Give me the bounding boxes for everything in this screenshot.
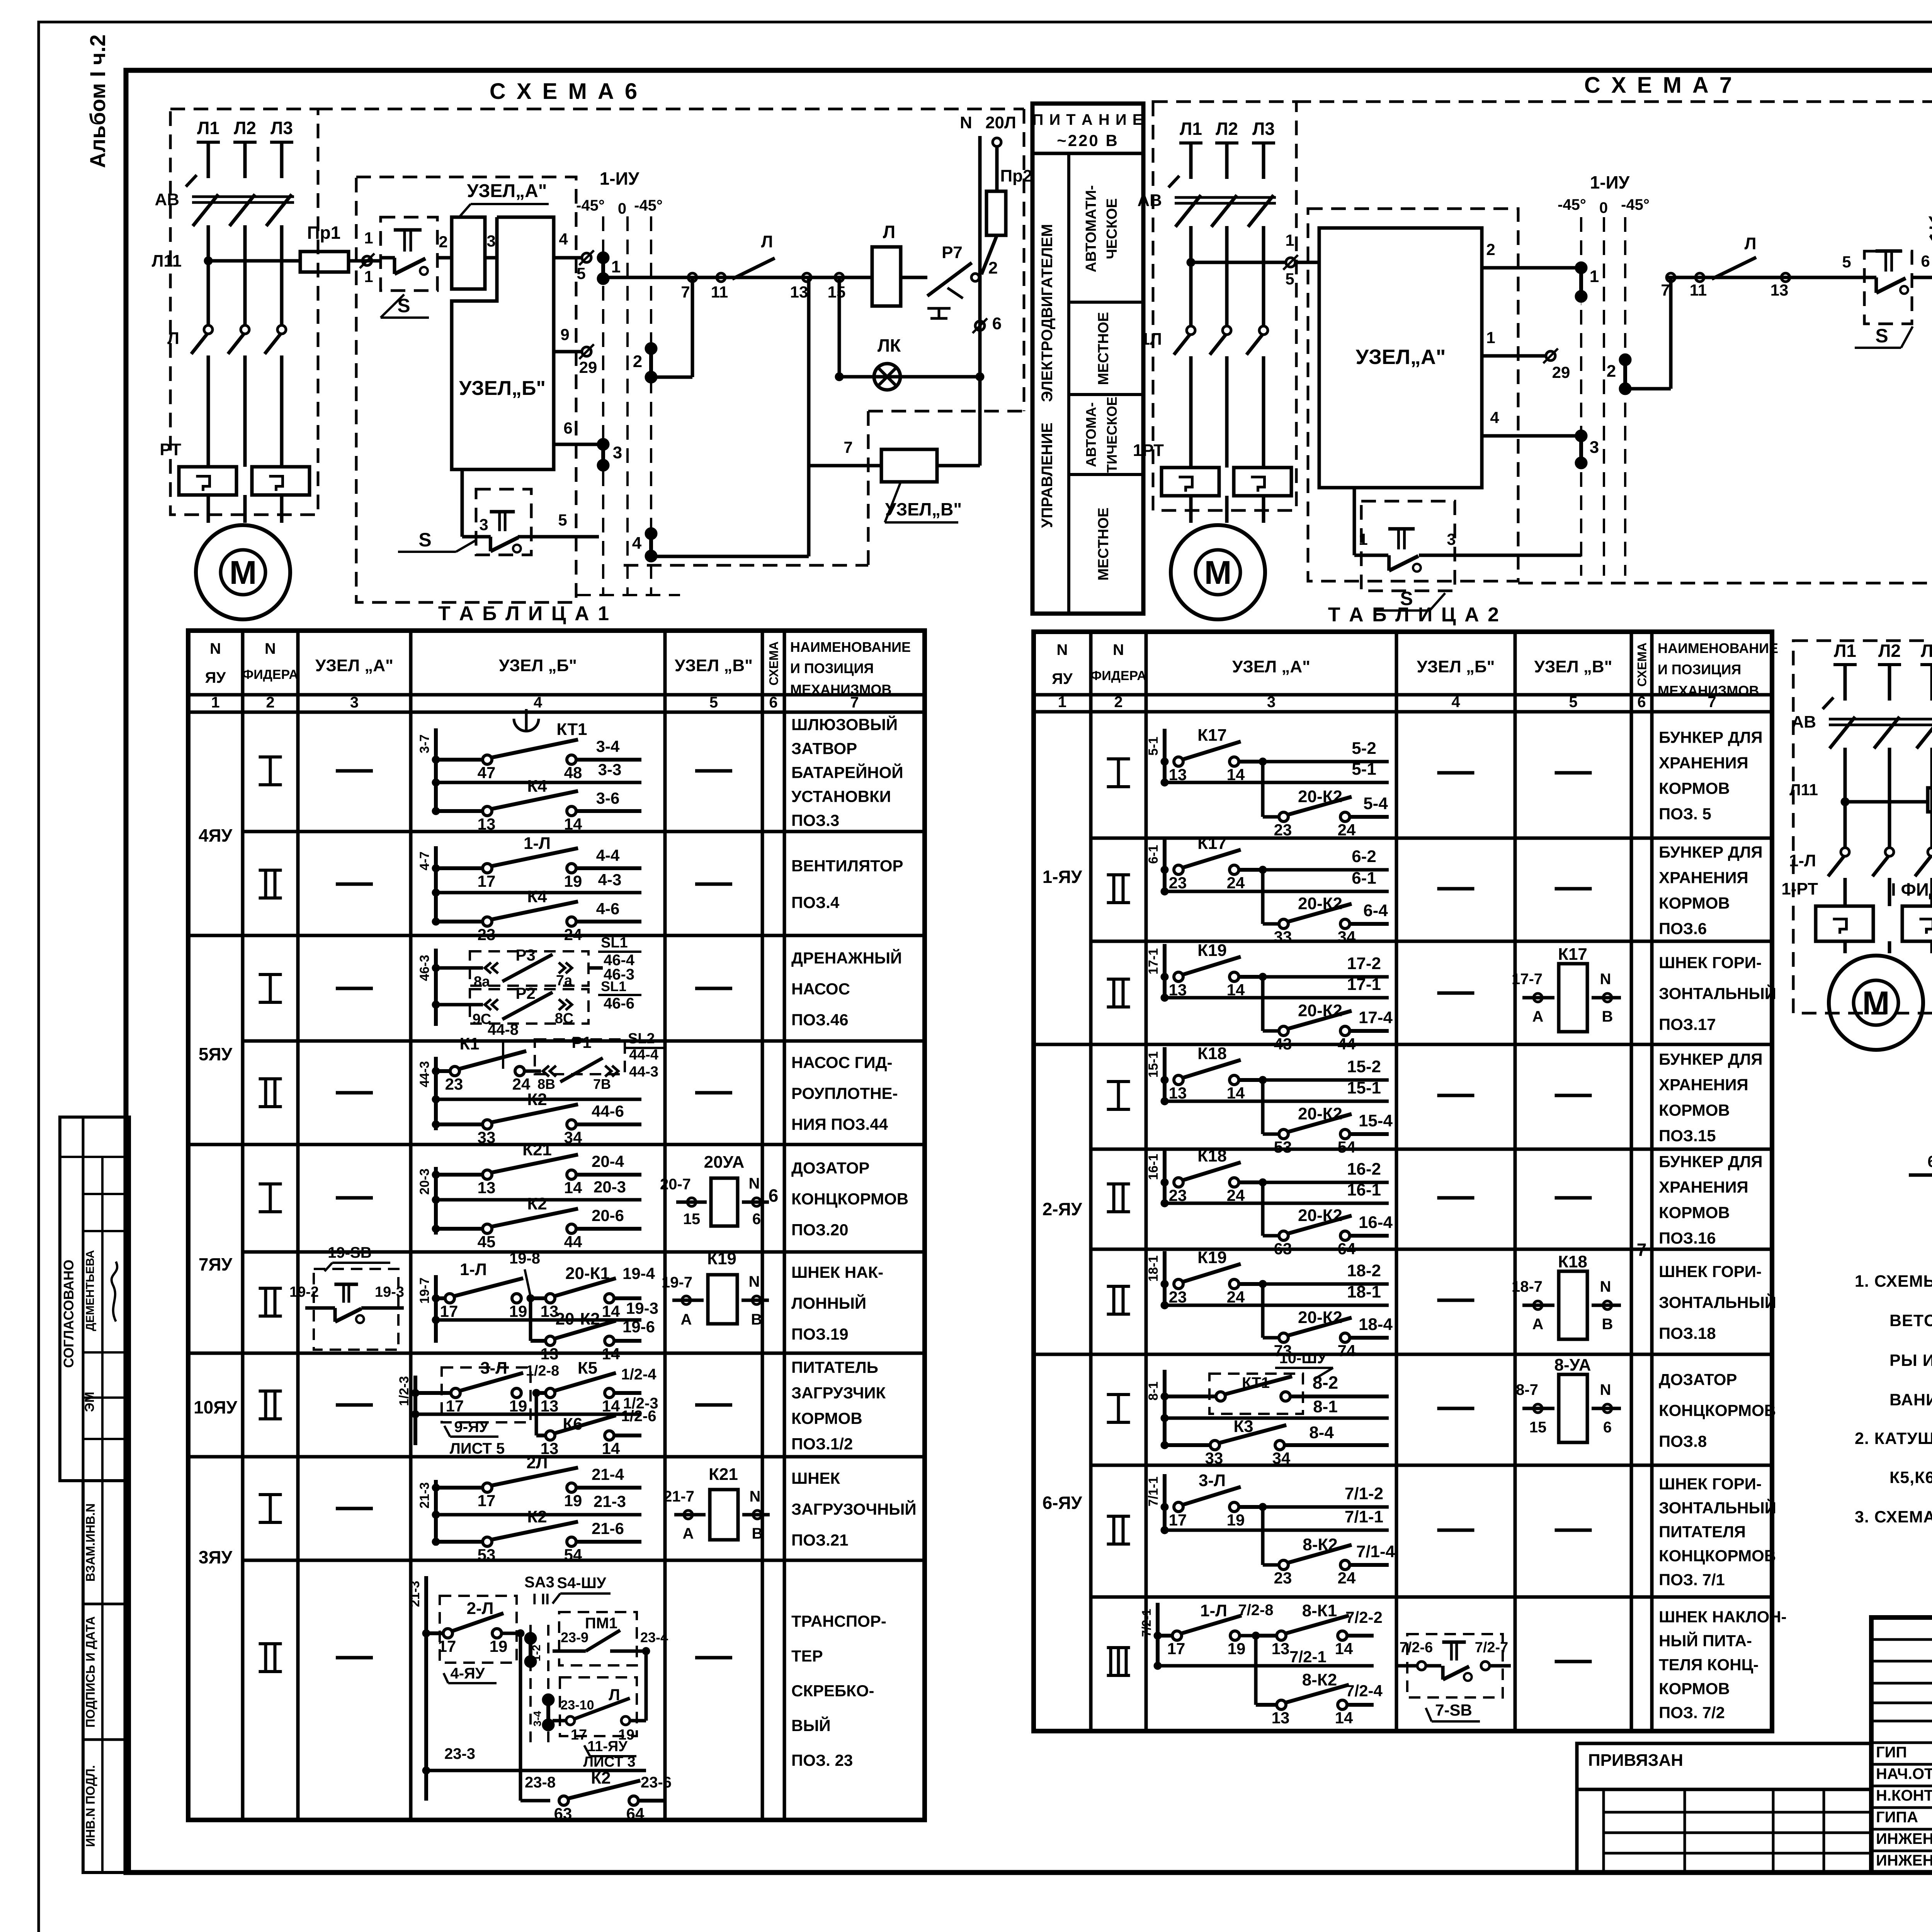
svg-text:Л: Л <box>167 329 179 348</box>
svg-text:ХРАНЕНИЯ: ХРАНЕНИЯ <box>1659 869 1748 887</box>
svg-text:ЗАГРУЗОЧНЫЙ: ЗАГРУЗОЧНЫЙ <box>791 1500 917 1518</box>
svg-text:6: 6 <box>769 694 777 711</box>
svg-text:SL1: SL1 <box>601 978 626 994</box>
svg-text:34: 34 <box>1272 1449 1291 1467</box>
contact of contactor <box>241 325 249 334</box>
wire узел А to узел Б <box>485 256 497 260</box>
svg-text:7/2-2: 7/2-2 <box>1345 1608 1383 1626</box>
switch S box right schema7 <box>1864 251 1912 324</box>
svg-text:ПОЗ. 7/2: ПОЗ. 7/2 <box>1659 1704 1725 1722</box>
svg-text:АВ: АВ <box>1137 191 1162 210</box>
svg-text:N: N <box>960 113 972 132</box>
svg-text:СКРЕБКО-: СКРЕБКО- <box>791 1682 874 1700</box>
svg-text:К19: К19 <box>1197 941 1227 960</box>
узел А box schema7 <box>1319 228 1482 488</box>
row9 wire 23-3 <box>423 1767 429 1774</box>
row3 дренажный насос fragment <box>434 949 438 1026</box>
svg-text:КТ1: КТ1 <box>1242 1374 1270 1391</box>
svg-text:КОНЦКОРМОВ: КОНЦКОРМОВ <box>791 1190 908 1208</box>
svg-text:СОГЛАСОВАНО: СОГЛАСОВАНО <box>61 1260 77 1368</box>
svg-text:13: 13 <box>541 1397 559 1415</box>
svg-text:6-2: 6-2 <box>1352 847 1376 866</box>
svg-text:-45°: -45° <box>1558 196 1586 213</box>
svg-text:7/1-1: 7/1-1 <box>1146 1476 1161 1507</box>
svg-text:23: 23 <box>1169 874 1187 892</box>
svg-text:5: 5 <box>577 264 585 282</box>
svg-text:20-К1: 20-К1 <box>565 1264 610 1283</box>
svg-text:4: 4 <box>534 694 543 711</box>
svg-text:ЗОНТАЛЬНЫЙ: ЗОНТАЛЬНЫЙ <box>1659 984 1776 1003</box>
push button symbol <box>927 307 951 310</box>
svg-text:МЕСТНОЕ: МЕСТНОЕ <box>1095 507 1112 580</box>
svg-text:А: А <box>683 1525 694 1542</box>
svg-text:45: 45 <box>478 1233 496 1251</box>
svg-text:РОУПЛОТНЕ-: РОУПЛОТНЕ- <box>791 1084 898 1102</box>
t2 row4 бункер 15 fragment <box>1163 1047 1167 1101</box>
svg-text:24: 24 <box>1227 874 1245 892</box>
svg-text:20-К2: 20-К2 <box>1298 787 1342 806</box>
svg-text:ПОЗ.18: ПОЗ.18 <box>1659 1324 1716 1342</box>
svg-text:К4: К4 <box>527 887 547 906</box>
contact Р7 <box>901 276 927 279</box>
svg-text:17: 17 <box>478 1492 496 1510</box>
svg-text:29: 29 <box>579 358 597 376</box>
wire L11 to fuse <box>208 259 300 263</box>
svg-text:КОНЦКОРМОВ: КОНЦКОРМОВ <box>1659 1401 1776 1420</box>
svg-text:44-3: 44-3 <box>629 1064 658 1080</box>
svg-text:ВЫЙ: ВЫЙ <box>791 1716 831 1735</box>
svg-text:S: S <box>1875 325 1888 347</box>
svg-text:17-4: 17-4 <box>1359 1008 1393 1027</box>
svg-text:В: В <box>752 1525 763 1542</box>
svg-text:14: 14 <box>602 1397 620 1415</box>
svg-text:1: 1 <box>1285 231 1294 249</box>
stamp inventory block <box>83 1481 129 1872</box>
svg-text:33: 33 <box>1274 928 1292 946</box>
svg-text:3: 3 <box>1447 530 1456 548</box>
svg-text:4-6: 4-6 <box>596 900 620 918</box>
svg-text:17: 17 <box>571 1727 587 1743</box>
svg-text:ПОЗ. 5: ПОЗ. 5 <box>1659 805 1711 823</box>
svg-text:БУНКЕР ДЛЯ: БУНКЕР ДЛЯ <box>1659 843 1763 861</box>
svg-text:17-2: 17-2 <box>1347 954 1381 973</box>
svg-text:Пр1: Пр1 <box>307 223 341 243</box>
node 2 <box>971 274 979 281</box>
svg-text:20-К2: 20-К2 <box>556 1310 600 1328</box>
signature Dementieva <box>112 1262 117 1321</box>
svg-text:1-ИУ: 1-ИУ <box>600 168 640 189</box>
svg-text:УЗЕЛ „Б": УЗЕЛ „Б" <box>1417 657 1495 676</box>
svg-text:N: N <box>750 1488 761 1505</box>
svg-text:К2: К2 <box>527 1507 547 1526</box>
svg-text:6-ЯУ: 6-ЯУ <box>1043 1493 1083 1513</box>
svg-text:И ПОЗИЦИЯ: И ПОЗИЦИЯ <box>790 660 874 676</box>
svg-text:Т А Б Л И Ц А 2: Т А Б Л И Ц А 2 <box>1328 604 1500 626</box>
svg-text:-45°: -45° <box>1621 196 1650 213</box>
svg-text:ИНЖЕНЕР: ИНЖЕНЕР <box>1876 1830 1932 1847</box>
svg-text:К18: К18 <box>1197 1146 1227 1165</box>
svg-text:А: А <box>681 1311 692 1328</box>
svg-text:АВТОМАТИ-: АВТОМАТИ- <box>1083 185 1099 272</box>
svg-text:N: N <box>210 640 221 657</box>
svg-text:6: 6 <box>563 419 572 437</box>
svg-text:24: 24 <box>1227 1288 1245 1306</box>
svg-text:21-3: 21-3 <box>417 1482 432 1509</box>
svg-text:17-1: 17-1 <box>1146 948 1161 975</box>
svg-text:ПОЗ.15: ПОЗ.15 <box>1659 1127 1716 1145</box>
svg-text:Л2: Л2 <box>1878 641 1901 661</box>
svg-text:КОРМОВ: КОРМОВ <box>1659 894 1730 912</box>
contact of contactor <box>1223 326 1231 335</box>
svg-text:N: N <box>749 1273 760 1290</box>
wire узел Б to switch S2 <box>461 469 464 537</box>
svg-text:ЗАГРУЗЧИК: ЗАГРУЗЧИК <box>791 1384 886 1402</box>
svg-text:7: 7 <box>1708 694 1716 711</box>
svg-text:Л3: Л3 <box>1252 119 1275 139</box>
svg-text:15-4: 15-4 <box>1359 1111 1393 1130</box>
svg-text:44: 44 <box>564 1233 582 1251</box>
svg-text:Л: Л <box>883 222 895 242</box>
svg-text:7/2-1: 7/2-1 <box>1289 1648 1327 1666</box>
label S right schema7 <box>1855 347 1901 349</box>
svg-text:15-2: 15-2 <box>1347 1057 1381 1076</box>
svg-text:48: 48 <box>564 764 582 782</box>
svg-text:23-4: 23-4 <box>640 1629 668 1645</box>
svg-text:14: 14 <box>1335 1639 1353 1658</box>
svg-text:УЗЕЛ„Б": УЗЕЛ„Б" <box>1929 213 1932 233</box>
terminal 6 <box>975 321 985 330</box>
svg-text:44-6: 44-6 <box>592 1102 624 1120</box>
svg-text:19-7: 19-7 <box>662 1274 692 1291</box>
svg-text:7/2-4: 7/2-4 <box>1345 1682 1383 1700</box>
svg-text:N: N <box>1600 1381 1611 1398</box>
svg-text:А: А <box>1532 1316 1544 1333</box>
svg-text:АВ: АВ <box>1791 713 1816 731</box>
svg-text:14: 14 <box>602 1302 620 1320</box>
svg-text:19-3: 19-3 <box>626 1299 658 1317</box>
svg-text:ПОЗ.20: ПОЗ.20 <box>791 1221 849 1239</box>
svg-text:5: 5 <box>558 511 567 529</box>
svg-text:64: 64 <box>1338 1240 1356 1258</box>
svg-text:КОРМОВ: КОРМОВ <box>791 1409 862 1427</box>
svg-text:29: 29 <box>1552 363 1570 381</box>
row8 шнек 21 fragment <box>434 1480 438 1546</box>
row9 selector contact 3-4 <box>543 1695 553 1705</box>
svg-text:8-4: 8-4 <box>1309 1423 1334 1442</box>
svg-text:17: 17 <box>438 1637 456 1655</box>
svg-text:1: 1 <box>364 229 373 247</box>
svg-text:ВЗАМ.ИНВ.N: ВЗАМ.ИНВ.N <box>83 1503 97 1582</box>
svg-text:Л3: Л3 <box>270 118 293 138</box>
svg-text:21-3: 21-3 <box>408 1581 422 1607</box>
svg-text:ПОЗ.21: ПОЗ.21 <box>791 1531 849 1549</box>
svg-text:Л2: Л2 <box>234 118 256 138</box>
svg-text:ЛИСТ 5: ЛИСТ 5 <box>450 1440 505 1457</box>
svg-text:6: 6 <box>1927 1152 1932 1170</box>
selector contact 1 schema7 <box>1576 263 1586 273</box>
svg-text:3: 3 <box>486 232 495 250</box>
svg-text:К1: К1 <box>459 1034 479 1053</box>
svg-text:14: 14 <box>564 815 582 833</box>
svg-text:9: 9 <box>560 325 569 344</box>
svg-text:ШНЕК ГОРИ-: ШНЕК ГОРИ- <box>1659 1262 1762 1281</box>
svg-text:21-4: 21-4 <box>592 1465 624 1483</box>
svg-text:ПОЗ.17: ПОЗ.17 <box>1659 1015 1716 1034</box>
control cubicle dashed box <box>356 177 576 602</box>
svg-text:К4: К4 <box>527 777 547 796</box>
svg-text:ЛОННЫЙ: ЛОННЫЙ <box>791 1294 866 1312</box>
svg-text:ПОЗ. 23: ПОЗ. 23 <box>791 1751 853 1769</box>
svg-text:24: 24 <box>564 925 582 944</box>
wire contact2 to node7 <box>651 376 692 379</box>
svg-text:19-3: 19-3 <box>375 1284 404 1300</box>
svg-text:ПОЗ.46: ПОЗ.46 <box>791 1011 849 1029</box>
svg-text:33: 33 <box>478 1128 496 1146</box>
svg-text:НЫЙ ПИТА-: НЫЙ ПИТА- <box>1659 1631 1752 1650</box>
svg-text:ДЕМЕНТЬЕВА: ДЕМЕНТЬЕВА <box>84 1250 97 1331</box>
svg-text:4-3: 4-3 <box>598 871 622 889</box>
svg-text:1: 1 <box>1486 328 1495 347</box>
label S <box>381 294 404 318</box>
svg-text:К18: К18 <box>1197 1044 1227 1063</box>
svg-text:20-3: 20-3 <box>594 1178 626 1196</box>
svg-text:1-Л: 1-Л <box>1200 1601 1227 1620</box>
control line schema7 <box>1581 296 1582 305</box>
svg-text:46-6: 46-6 <box>604 995 634 1012</box>
svg-text:1: 1 <box>1058 694 1066 711</box>
svg-text:ШНЕК НАК-: ШНЕК НАК- <box>791 1263 883 1281</box>
svg-text:1. СХЕМЫ 6,7 ВЫПОЛНЕНЫ В ОБЩЕ: 1. СХЕМЫ 6,7 ВЫПОЛНЕНЫ В ОБЩЕМ ВИДЕ И ПР… <box>1855 1272 1932 1291</box>
svg-text:63: 63 <box>1274 1240 1292 1258</box>
svg-text:1: 1 <box>1590 267 1599 286</box>
svg-text:19: 19 <box>564 872 582 890</box>
svg-text:14: 14 <box>564 1179 582 1197</box>
svg-text:18-1: 18-1 <box>1347 1282 1381 1301</box>
row2 вентилятор fragment <box>434 846 438 923</box>
svg-text:4-7: 4-7 <box>417 851 432 870</box>
svg-text:1-2: 1-2 <box>530 1645 543 1661</box>
svg-text:7/1-1: 7/1-1 <box>1345 1507 1383 1526</box>
svg-text:8-К1: 8-К1 <box>1302 1601 1337 1620</box>
svg-text:44-4: 44-4 <box>629 1047 658 1063</box>
supply table schema6 <box>1032 104 1143 614</box>
terminal 7 s7 <box>1667 273 1675 282</box>
svg-text:N: N <box>265 640 276 657</box>
svg-text:М: М <box>230 554 257 591</box>
svg-text:УЗЕЛ„А": УЗЕЛ„А" <box>467 181 547 201</box>
wire S to узел А <box>437 256 452 260</box>
svg-text:4: 4 <box>1451 694 1460 711</box>
svg-text:ИНВ.N ПОДЛ.: ИНВ.N ПОДЛ. <box>83 1765 97 1847</box>
svg-text:ТЕР: ТЕР <box>791 1647 823 1665</box>
switch S box 2 schema6 <box>476 489 531 555</box>
svg-text:19: 19 <box>564 1492 582 1510</box>
svg-text:К17: К17 <box>1558 945 1587 964</box>
contact of contactor <box>1259 326 1268 335</box>
узел Б pin 9 <box>554 350 582 354</box>
svg-text:15: 15 <box>1529 1419 1547 1436</box>
svg-text:I ФИДЕР: I ФИДЕР <box>1891 879 1932 900</box>
svg-text:1РТ: 1РТ <box>1133 441 1164 460</box>
control line <box>603 276 872 279</box>
svg-text:34: 34 <box>1338 928 1356 946</box>
svg-text:N: N <box>1113 641 1124 658</box>
wire contact2 to node 7 schema7 <box>1625 387 1671 391</box>
svg-text:Р2: Р2 <box>515 984 535 1002</box>
svg-text:3: 3 <box>350 694 359 711</box>
svg-text:УЗЕЛ„Б": УЗЕЛ„Б" <box>459 377 546 400</box>
svg-text:КОРМОВ: КОРМОВ <box>1659 1204 1730 1222</box>
svg-text:33: 33 <box>1205 1449 1223 1467</box>
svg-text:47: 47 <box>478 764 496 782</box>
selector contact 2 <box>646 344 656 354</box>
svg-text:11: 11 <box>711 283 728 301</box>
svg-text:19-4: 19-4 <box>622 1264 655 1282</box>
svg-text:К18: К18 <box>1558 1252 1587 1271</box>
svg-text:1: 1 <box>364 267 373 286</box>
main wire to узел А <box>1187 259 1194 266</box>
contact of contactor <box>1841 848 1849 856</box>
svg-text:ПОЗ.1/2: ПОЗ.1/2 <box>791 1435 853 1453</box>
svg-text:3: 3 <box>1590 438 1599 457</box>
svg-text:ТИЧЕСКОЕ: ТИЧЕСКОЕ <box>1104 396 1120 473</box>
узел А box schema6 <box>452 217 485 289</box>
svg-text:ШЛЮЗОВЫЙ: ШЛЮЗОВЫЙ <box>791 715 898 734</box>
svg-text:УСТАНОВКИ: УСТАНОВКИ <box>791 787 891 806</box>
svg-text:1-Л: 1-Л <box>1789 851 1816 870</box>
svg-text:20-3: 20-3 <box>417 1168 432 1195</box>
svg-text:ЗОНТАЛЬНЫЙ: ЗОНТАЛЬНЫЙ <box>1659 1293 1776 1311</box>
svg-text:-45°: -45° <box>634 197 663 214</box>
contact Л blade s7 <box>1712 257 1756 279</box>
svg-text:УПРАВЛЕНИЕ: УПРАВЛЕНИЕ <box>1039 423 1056 528</box>
svg-text:23-10: 23-10 <box>561 1698 594 1713</box>
svg-text:КОНЦКОРМОВ: КОНЦКОРМОВ <box>1659 1547 1776 1565</box>
svg-text:7/1-2: 7/1-2 <box>1345 1484 1383 1503</box>
svg-text:20-К2: 20-К2 <box>1298 894 1342 913</box>
svg-text:И ПОЗИЦИЯ: И ПОЗИЦИЯ <box>1658 662 1741 677</box>
svg-text:16-1: 16-1 <box>1347 1180 1381 1199</box>
lamp ЛК branch <box>838 277 841 377</box>
svg-text:К21: К21 <box>709 1465 738 1484</box>
svg-text:УЗЕЛ „Б": УЗЕЛ „Б" <box>499 656 577 675</box>
svg-text:13: 13 <box>790 283 808 301</box>
svg-text:НАИМЕНОВАНИЕ: НАИМЕНОВАНИЕ <box>1658 640 1778 656</box>
svg-text:13: 13 <box>1272 1709 1290 1727</box>
svg-text:1-РТ: 1-РТ <box>1781 879 1818 898</box>
svg-text:23: 23 <box>445 1075 463 1093</box>
svg-text:7-SB: 7-SB <box>1435 1701 1472 1719</box>
svg-text:20-К2: 20-К2 <box>1298 1206 1342 1225</box>
svg-text:БУНКЕР ДЛЯ: БУНКЕР ДЛЯ <box>1659 1153 1763 1171</box>
svg-text:20УА: 20УА <box>704 1153 745 1172</box>
svg-text:Р1: Р1 <box>571 1033 591 1051</box>
svg-text:НАСОС: НАСОС <box>791 980 850 998</box>
wire S to узел Б schema7 <box>1912 276 1932 279</box>
svg-text:13: 13 <box>1770 281 1789 299</box>
svg-text:6: 6 <box>1637 694 1646 711</box>
узел А pin 4 <box>1482 434 1577 438</box>
svg-text:6: 6 <box>992 314 1002 333</box>
узел В box schema6 <box>809 464 881 468</box>
svg-text:13: 13 <box>478 1179 496 1197</box>
row9 contact ПМ1 <box>559 1612 637 1665</box>
узел А pin 1 terminal 29 <box>1482 354 1546 358</box>
svg-text:13: 13 <box>1169 1084 1187 1102</box>
svg-text:В: В <box>1602 1316 1613 1333</box>
svg-text:К19: К19 <box>707 1249 736 1268</box>
svg-text:6-1: 6-1 <box>1352 869 1376 888</box>
svg-text:К2: К2 <box>527 1194 547 1213</box>
svg-text:53: 53 <box>1274 1138 1292 1156</box>
svg-text:5: 5 <box>709 694 718 711</box>
svg-text:24: 24 <box>1338 821 1356 839</box>
svg-text:ШНЕК ГОРИ-: ШНЕК ГОРИ- <box>1659 1475 1762 1493</box>
row4 насос гидроуплотнения fragment <box>434 1057 438 1130</box>
svg-text:М: М <box>1204 554 1232 591</box>
svg-text:ВАНИЯ(ОБОЗНАЧЕНИЕ АППАРАТУРЫ: ВАНИЯ(ОБОЗНАЧЕНИЕ АППАРАТУРЫ В ЯЩИКАХ УП… <box>1889 1391 1932 1409</box>
svg-text:ИНЖЕНЕР: ИНЖЕНЕР <box>1876 1852 1932 1869</box>
svg-text:17: 17 <box>1167 1639 1185 1658</box>
svg-text:13: 13 <box>478 815 496 833</box>
svg-text:2: 2 <box>633 352 642 371</box>
svg-text:3-4: 3-4 <box>531 1711 543 1726</box>
svg-text:7: 7 <box>850 694 859 711</box>
svg-text:6: 6 <box>1921 252 1930 270</box>
svg-text:ВЕНТИЛЯТОР: ВЕНТИЛЯТОР <box>791 857 903 875</box>
svg-text:7/2-6: 7/2-6 <box>1400 1639 1433 1656</box>
svg-text:К17: К17 <box>1197 834 1227 853</box>
table 2 feeder numerals <box>1107 757 1130 760</box>
svg-text:4-4: 4-4 <box>596 846 620 864</box>
svg-text:11: 11 <box>1690 281 1707 299</box>
svg-text:7/1-4: 7/1-4 <box>1356 1542 1395 1561</box>
svg-text:АВТОМА-: АВТОМА- <box>1083 402 1099 467</box>
svg-text:19-SB: 19-SB <box>328 1244 371 1261</box>
svg-text:1-ЯУ: 1-ЯУ <box>1043 867 1083 887</box>
узел Б pin 6 <box>554 443 598 446</box>
svg-text:46-3: 46-3 <box>417 955 432 981</box>
svg-text:ГИПА: ГИПА <box>1876 1809 1918 1826</box>
svg-text:21-3: 21-3 <box>594 1492 626 1510</box>
svg-text:К2: К2 <box>591 1769 611 1787</box>
svg-text:8С: 8С <box>555 1010 574 1027</box>
svg-text:-45°: -45° <box>576 197 605 214</box>
svg-text:3: 3 <box>613 443 622 462</box>
svg-text:ХРАНЕНИЯ: ХРАНЕНИЯ <box>1659 1076 1748 1094</box>
svg-text:19-7: 19-7 <box>417 1277 432 1304</box>
svg-text:1: 1 <box>1359 530 1367 548</box>
svg-text:УЗЕЛ „А": УЗЕЛ „А" <box>1232 657 1310 676</box>
svg-text:18-4: 18-4 <box>1359 1315 1393 1334</box>
svg-text:Н.КОНТР.: Н.КОНТР. <box>1876 1787 1932 1804</box>
svg-text:ПОЗ.16: ПОЗ.16 <box>1659 1229 1716 1247</box>
svg-text:54: 54 <box>1338 1138 1356 1156</box>
svg-text:КОРМОВ: КОРМОВ <box>1659 779 1730 798</box>
svg-text:3-4: 3-4 <box>596 737 620 755</box>
selector contact 1 <box>598 253 608 263</box>
svg-text:8-К2: 8-К2 <box>1302 1670 1337 1689</box>
svg-text:5ЯУ: 5ЯУ <box>199 1044 233 1064</box>
svg-text:16-1: 16-1 <box>1146 1154 1161 1180</box>
svg-text:3-6: 3-6 <box>596 789 620 807</box>
svg-text:ФИДЕРА: ФИДЕРА <box>1090 668 1146 683</box>
svg-text:13: 13 <box>541 1345 559 1363</box>
svg-text:ПИТАТЕЛЯ: ПИТАТЕЛЯ <box>1659 1523 1746 1541</box>
svg-text:14: 14 <box>602 1345 620 1363</box>
stamp approval block <box>60 1117 129 1481</box>
узел А switch S <box>1353 488 1356 555</box>
